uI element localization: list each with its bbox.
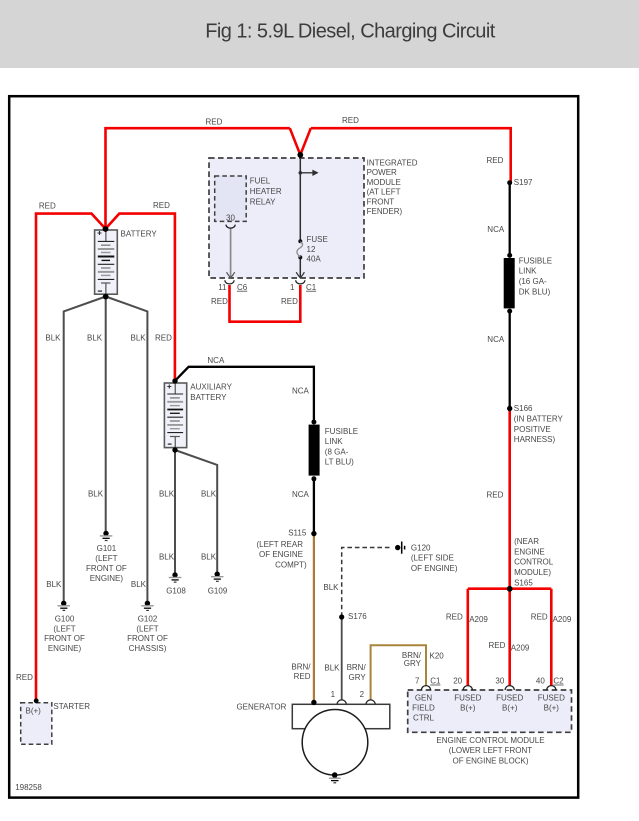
svg-text:ENGINE: ENGINE (514, 547, 545, 556)
wire GRY relay 30 to C6 (230, 229, 232, 278)
svg-text:198258: 198258 (15, 783, 42, 792)
node S176 (339, 614, 344, 619)
svg-text:G120: G120 (411, 543, 431, 552)
svg-text:(LEFT REAR: (LEFT REAR (256, 540, 303, 549)
label G101 text (86, 544, 127, 583)
svg-text:NCA: NCA (207, 356, 225, 365)
svg-text:(LEFT: (LEFT (95, 554, 117, 563)
wire BLK battery negative to G101 (105, 297, 107, 533)
svg-text:BLK: BLK (87, 334, 103, 343)
wire BLK auxiliary battery negative to G108 (174, 450, 176, 575)
svg-text:GRY: GRY (404, 659, 422, 668)
svg-text:BLK: BLK (201, 490, 217, 499)
svg-text:(AT LEFT: (AT LEFT (367, 188, 401, 197)
svg-text:ENGINE): ENGINE) (48, 644, 82, 653)
svg-text:G108: G108 (166, 587, 186, 596)
node battery negative (103, 294, 109, 300)
svg-text:CONTROL: CONTROL (514, 558, 554, 567)
svg-text:(8 GA-: (8 GA- (325, 447, 349, 456)
svg-text:11: 11 (218, 283, 227, 292)
wire RED left branch to starter (36, 214, 106, 700)
svg-text:BATTERY: BATTERY (121, 229, 158, 238)
svg-text:FIELD: FIELD (412, 704, 435, 713)
wire BRN/RED S115 to generator (313, 534, 315, 703)
fusible link F1 16GA bar (504, 258, 515, 308)
svg-text:(LEFT: (LEFT (53, 624, 75, 633)
label G102 text (127, 615, 168, 653)
connector arch generator pin 1 (337, 700, 346, 704)
svg-text:FRONT OF: FRONT OF (44, 634, 85, 643)
label FUSED B(+) pin 30 (496, 694, 523, 713)
svg-text:INTEGRATED: INTEGRATED (367, 159, 418, 168)
connector cup pin 11 C6 (225, 280, 234, 284)
svg-text:20: 20 (453, 677, 462, 686)
svg-text:NCA: NCA (292, 490, 310, 499)
wire RED S166 to S165 (508, 409, 511, 589)
svg-text:S115: S115 (288, 528, 307, 537)
svg-text:B(+): B(+) (460, 704, 476, 713)
node S197 (507, 180, 512, 185)
svg-text:S176: S176 (348, 612, 367, 621)
svg-text:BLK: BLK (45, 334, 61, 343)
svg-text:FRONT OF: FRONT OF (127, 634, 168, 643)
svg-text:FUEL: FUEL (250, 177, 271, 186)
svg-text:40: 40 (536, 677, 545, 686)
svg-text:ENGINE): ENGINE) (90, 574, 124, 583)
svg-text:(16 GA-: (16 GA- (519, 277, 547, 286)
svg-text:RED: RED (531, 612, 548, 621)
svg-text:ENGINE CONTROL MODULE: ENGINE CONTROL MODULE (436, 736, 544, 745)
ground G102 (141, 601, 154, 611)
fuel heater relay K-FHR box (215, 176, 247, 221)
diagram border frame (9, 96, 578, 797)
wire BLK battery negative to G100 (64, 297, 106, 603)
node generator B+ stud (311, 700, 316, 705)
node auxiliary battery negative (172, 447, 177, 452)
svg-text:B(+): B(+) (26, 707, 42, 716)
svg-text:BLK: BLK (324, 663, 340, 672)
svg-text:12: 12 (307, 245, 316, 254)
svg-text:RED: RED (155, 334, 172, 343)
wire BLK auxiliary battery negative to G109 (175, 450, 217, 574)
svg-text:GENERATOR: GENERATOR (236, 703, 286, 712)
svg-text:GEN: GEN (415, 694, 433, 703)
svg-text:CTRL: CTRL (413, 714, 434, 723)
svg-text:LINK: LINK (519, 267, 537, 276)
node S115 (311, 531, 316, 536)
svg-text:BLK: BLK (201, 552, 217, 561)
node starter B+ (34, 698, 39, 703)
svg-text:POSITIVE: POSITIVE (514, 425, 551, 434)
svg-text:RED: RED (281, 297, 298, 306)
svg-text:A209: A209 (469, 615, 488, 624)
svg-text:HARNESS): HARNESS) (514, 435, 556, 444)
node arrow tap dot (299, 171, 303, 175)
svg-text:RED: RED (206, 118, 223, 127)
label FUSED B(+) pin 20 (454, 694, 481, 713)
wire BLK S176 to generator pin 1 (341, 617, 343, 700)
wire arrowhead at IPM bottom C6 (227, 272, 235, 278)
svg-text:AUXILIARY: AUXILIARY (190, 383, 232, 392)
svg-text:GRY: GRY (348, 673, 366, 682)
label FUSED B(+) pin 40 (538, 694, 565, 713)
svg-text:NCA: NCA (487, 335, 505, 344)
connector arch ECM pin 30 (505, 686, 514, 690)
ground G120 symbol (395, 542, 405, 554)
svg-text:(NEAR: (NEAR (514, 537, 539, 546)
svg-text:FUSIBLE: FUSIBLE (519, 256, 552, 265)
svg-text:NCA: NCA (292, 386, 310, 395)
ground G108 (169, 572, 182, 582)
wire BRN/GRY generator pin 2 to ECM pin 7 (371, 645, 426, 700)
label GEN FIELD CTRL (412, 694, 435, 723)
svg-text:CHASSIS): CHASSIS) (129, 644, 167, 653)
node auxiliary battery positive (172, 378, 177, 383)
node battery positive (103, 226, 109, 232)
svg-text:OF ENGINE: OF ENGINE (259, 550, 303, 559)
svg-text:30: 30 (226, 214, 235, 223)
fuse F12 40A element (298, 239, 302, 243)
node junction at IPM top (297, 152, 303, 158)
svg-text:RED: RED (39, 202, 56, 211)
connector arch ECM pin 40 C2 (547, 686, 556, 690)
svg-text:BLK: BLK (131, 580, 147, 589)
svg-text:OF ENGINE BLOCK): OF ENGINE BLOCK) (452, 756, 528, 765)
ground at generator case (329, 772, 341, 783)
svg-text:FRONT OF: FRONT OF (86, 564, 127, 573)
connector arch ECM pin 20 (463, 686, 472, 690)
svg-text:C1: C1 (306, 283, 317, 292)
svg-text:NCA: NCA (487, 225, 505, 234)
svg-text:K20: K20 (430, 651, 445, 660)
svg-text:BRN/: BRN/ (347, 663, 367, 672)
svg-text:RED: RED (487, 156, 504, 165)
svg-text:G101: G101 (97, 544, 117, 553)
svg-text:S197: S197 (514, 178, 533, 187)
svg-text:HEATER: HEATER (250, 187, 282, 196)
svg-text:RED: RED (342, 116, 359, 125)
wire BLK battery negative to G102 (106, 297, 148, 603)
svg-text:C1: C1 (430, 677, 441, 686)
connector cup pin 30 relay (226, 225, 235, 229)
svg-text:RED: RED (211, 297, 228, 306)
svg-text:RELAY: RELAY (250, 198, 276, 207)
svg-text:OF ENGINE): OF ENGINE) (411, 564, 458, 573)
svg-text:30: 30 (495, 677, 504, 686)
svg-text:1: 1 (331, 690, 336, 699)
svg-text:S165: S165 (514, 578, 533, 587)
starter box (21, 703, 52, 745)
svg-text:C6: C6 (237, 283, 248, 292)
svg-text:(IN BATTERY: (IN BATTERY (514, 415, 564, 424)
svg-text:(LEFT: (LEFT (136, 624, 158, 633)
svg-text:RED: RED (16, 673, 33, 682)
svg-text:RED: RED (294, 672, 311, 681)
svg-text:RED: RED (489, 641, 506, 650)
title bar (0, 0, 639, 68)
svg-text:LT BLU): LT BLU) (325, 458, 354, 467)
label G100 text (44, 615, 85, 653)
battery B1 plates (98, 241, 115, 283)
svg-text:BRN/: BRN/ (291, 662, 311, 671)
svg-text:(LEFT SIDE: (LEFT SIDE (411, 554, 454, 563)
wire NCA fusible link 1 to S166 (509, 311, 511, 409)
node S165 (507, 586, 513, 592)
svg-text:MODULE): MODULE) (514, 568, 551, 577)
connector cup pin 1 C1 (296, 280, 305, 284)
svg-text:1: 1 (290, 283, 295, 292)
svg-text:RED: RED (153, 201, 170, 210)
svg-text:BLK: BLK (88, 490, 104, 499)
svg-text:STARTER: STARTER (53, 702, 90, 711)
svg-text:BLK: BLK (131, 334, 147, 343)
wire RED jumper C6 to C1 under IPM (230, 285, 301, 322)
svg-text:40A: 40A (307, 255, 322, 264)
svg-text:BATTERY: BATTERY (190, 393, 227, 402)
svg-text:(LOWER LEFT FRONT: (LOWER LEFT FRONT (449, 746, 533, 755)
battery B1 body (95, 230, 118, 294)
svg-text:2: 2 (360, 690, 365, 699)
svg-text:A209: A209 (553, 615, 572, 624)
engine control module ECM box (408, 690, 572, 732)
svg-text:BLK: BLK (323, 583, 339, 592)
svg-text:LINK: LINK (325, 437, 343, 446)
svg-text:RED: RED (446, 612, 463, 621)
wire RED battery feed + top bus to S197 (106, 128, 511, 229)
wire NCA auxiliary battery to fusible link 2 (175, 367, 314, 422)
label ENGINE CONTROL MODULE (436, 736, 544, 765)
wire RED right branch to auxiliary battery (106, 214, 175, 381)
svg-text:FUSED: FUSED (454, 694, 481, 703)
svg-text:MODULE: MODULE (367, 178, 401, 187)
wire BLK IPM internal vertical (299, 156, 301, 277)
generator body (292, 704, 390, 728)
wire NCA fusible link 2 to S115 (313, 479, 315, 534)
svg-text:BLK: BLK (46, 580, 62, 589)
svg-text:POWER: POWER (367, 168, 397, 177)
svg-text:FUSIBLE: FUSIBLE (325, 427, 358, 436)
svg-text:G100: G100 (55, 615, 75, 624)
svg-text:G102: G102 (138, 615, 158, 624)
svg-text:FUSE: FUSE (307, 235, 328, 244)
wire BLK dashed S176 to G120 (342, 548, 391, 617)
svg-text:C2: C2 (553, 677, 564, 686)
svg-text:FUSED: FUSED (538, 694, 565, 703)
wire NCA S197 to fusible link 1 (509, 183, 511, 256)
svg-text:RED: RED (487, 491, 504, 500)
svg-text:COMPT): COMPT) (275, 560, 307, 569)
svg-text:Fig 1: 5.9L Diesel, Charging C: Fig 1: 5.9L Diesel, Charging Circuit (205, 21, 496, 43)
wire arrow tap inside IPM (300, 172, 312, 174)
svg-text:7: 7 (415, 677, 420, 686)
fusible link F2 8GA bar (309, 425, 320, 476)
auxiliary battery B2 body (164, 383, 186, 448)
svg-text:A209: A209 (511, 644, 530, 653)
integrated power module U-IPM box (209, 158, 364, 278)
auxiliary battery B2 plates (167, 394, 183, 437)
svg-text:FRONT: FRONT (367, 198, 395, 207)
svg-text:FENDER): FENDER) (367, 207, 403, 216)
svg-text:DK BLU): DK BLU) (519, 287, 551, 296)
svg-text:FUSED: FUSED (496, 694, 523, 703)
svg-text:S166: S166 (514, 404, 533, 413)
wire RED S165 bus to ECM pins 20 30 40 (468, 589, 552, 686)
svg-text:G109: G109 (208, 587, 228, 596)
svg-text:BLK: BLK (159, 490, 175, 499)
node S166 (507, 406, 512, 411)
connector arch ECM pin 7 C1 (421, 686, 430, 690)
ground G109 (211, 572, 224, 582)
svg-text:BLK: BLK (159, 552, 175, 561)
wire arrowhead at IPM bottom C1 (296, 272, 304, 278)
ground G100 (58, 601, 71, 611)
svg-text:B(+): B(+) (502, 704, 518, 713)
svg-text:B(+): B(+) (544, 704, 560, 713)
connector arch generator pin 2 (366, 700, 375, 704)
ground G101 (100, 531, 113, 541)
